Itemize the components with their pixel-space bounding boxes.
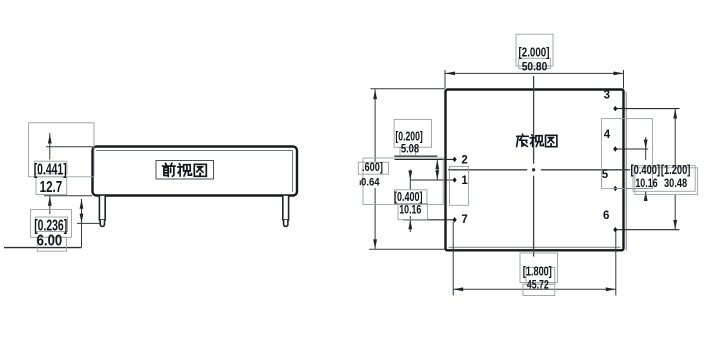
svg-text:12.7: 12.7 <box>40 179 63 196</box>
svg-text:[0.400]: [0.400] <box>631 163 661 177</box>
svg-text:30.48: 30.48 <box>664 178 688 190</box>
svg-text:[1.800]: [1.800] <box>523 265 552 279</box>
svg-text:5.08: 5.08 <box>401 143 420 155</box>
svg-text:[0.441]: [0.441] <box>34 162 67 179</box>
svg-text:6: 6 <box>603 210 609 222</box>
svg-text:4: 4 <box>604 129 611 141</box>
svg-text:[0.400]: [0.400] <box>394 190 423 204</box>
svg-text:6.00: 6.00 <box>37 232 63 249</box>
svg-text:45.72: 45.72 <box>527 280 549 292</box>
svg-text:3: 3 <box>604 89 610 101</box>
svg-text:10.16: 10.16 <box>399 205 421 217</box>
svg-text:[0.200]: [0.200] <box>395 129 422 143</box>
svg-text:50.80: 50.80 <box>522 61 548 73</box>
svg-text:.600]: .600] <box>362 162 383 174</box>
svg-text:10.16: 10.16 <box>635 178 657 190</box>
svg-text:1: 1 <box>461 175 468 187</box>
svg-text:0.64: 0.64 <box>361 176 380 188</box>
svg-text:5: 5 <box>602 169 609 181</box>
svg-text:2: 2 <box>461 155 467 167</box>
svg-text:[1.200]: [1.200] <box>661 163 691 177</box>
svg-text:7: 7 <box>461 214 467 226</box>
svg-text:[2.000]: [2.000] <box>519 46 550 60</box>
